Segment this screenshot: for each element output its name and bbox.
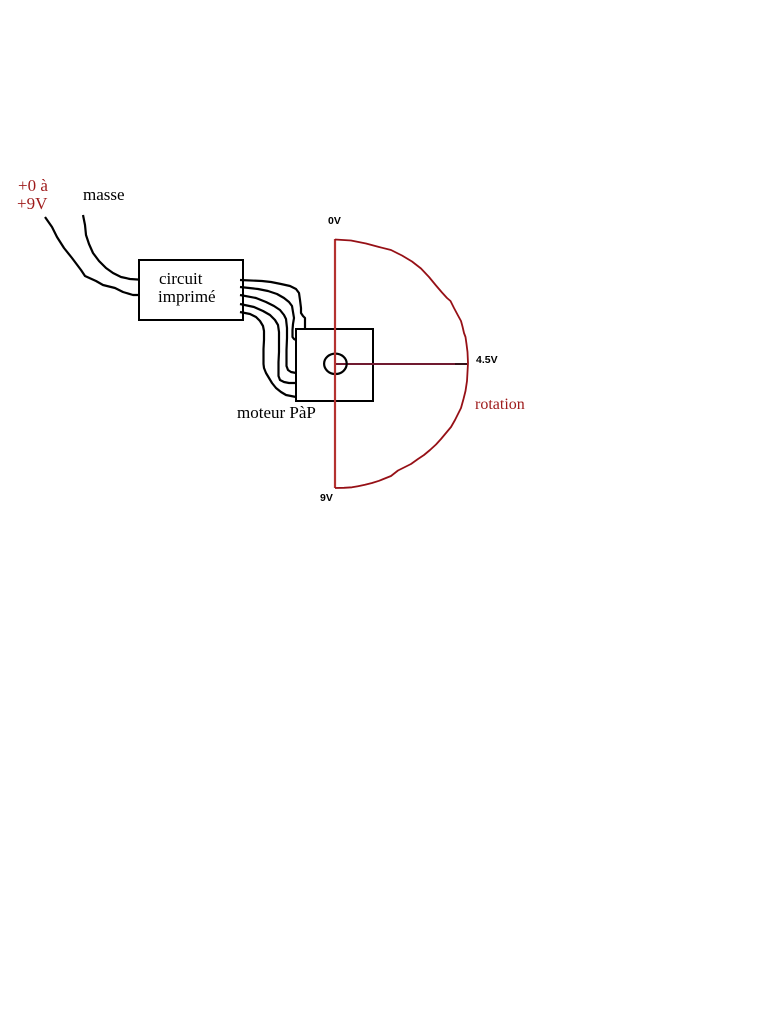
svg-text:rotation: rotation xyxy=(475,396,525,413)
dial radius line dark tip xyxy=(455,363,467,365)
svg-text:+9V: +9V xyxy=(17,194,48,213)
wire motor lead 2 xyxy=(240,287,296,340)
wire motor lead 3 xyxy=(240,295,296,373)
wire motor lead 5 xyxy=(240,312,296,397)
svg-text:+0 à: +0 à xyxy=(18,176,48,195)
motor shaft circle xyxy=(324,354,347,374)
svg-text:moteur PàP: moteur PàP xyxy=(237,403,316,422)
wire masse to circuit board xyxy=(83,215,145,280)
svg-text:0V: 0V xyxy=(328,215,341,227)
svg-text:circuit: circuit xyxy=(159,269,203,288)
wire motor lead 4 xyxy=(240,304,296,383)
svg-text:9V: 9V xyxy=(320,492,333,504)
dial vertical axis line 0V-9V xyxy=(334,239,336,488)
svg-text:masse: masse xyxy=(83,185,125,204)
dial radius line to 4.5V xyxy=(335,363,467,365)
wire motor lead 1 xyxy=(240,280,305,329)
motor body moteur PàP xyxy=(296,329,373,401)
svg-text:imprimé: imprimé xyxy=(158,287,216,306)
wire +9V supply to circuit board xyxy=(45,217,145,295)
rotation dial arc xyxy=(335,240,468,489)
svg-text:4.5V: 4.5V xyxy=(476,354,498,366)
circuit imprimé box xyxy=(139,260,243,320)
